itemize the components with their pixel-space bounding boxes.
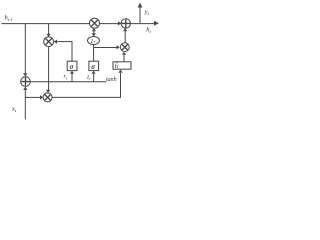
wire: riser into sigma box B2	[93, 74, 95, 82]
wire: drop from top line into multiplier M2	[48, 23, 50, 34]
sigma box B1 (reset gate)	[67, 61, 77, 70]
wire: M2 output down to M3	[48, 47, 50, 91]
arrowhead into h[t] output	[154, 21, 159, 26]
wire: y[t] branch up	[139, 7, 141, 23]
wire: x[t] riser	[24, 90, 26, 120]
wire: top h-line from h[t-1] to h[t]	[2, 23, 156, 25]
arrowhead into M4 left	[117, 45, 120, 49]
arrowhead into B2 bottom	[92, 71, 96, 74]
wire: ellipse top to multiplier M1 bottom	[93, 28, 95, 36]
wire: z branch right to multiplier M4	[94, 47, 117, 49]
wire: M4 output up into plus node S2	[124, 31, 126, 43]
svg-text:σ: σ	[70, 63, 74, 71]
arrowhead into B1 bottom	[70, 71, 74, 74]
wire: gate bus from S1 output rightwards	[30, 81, 106, 83]
svg-text:σ: σ	[91, 63, 95, 71]
multiplier node M2 (reset gate times h)	[44, 37, 54, 47]
wire: left drop from top line to plus node S1	[24, 23, 26, 73]
svg-text:1-: 1-	[90, 38, 95, 45]
multiplier node M4 (z times candidate)	[120, 43, 129, 52]
wire: M3 output right then up into candidate box B3	[52, 73, 120, 97]
sigma box B2 (update gate)	[89, 61, 99, 70]
svg-text:rt: rt	[64, 74, 68, 81]
wire: candidate box B3 top up into M4	[123, 55, 125, 62]
wire: x[t] branch right to multiplier M3	[25, 96, 40, 98]
plus node S2 (adds on h-line)	[121, 19, 130, 28]
svg-text:ht-1: ht-1	[5, 15, 13, 23]
plus node S1 (h[t-1] plus x[t])	[21, 77, 31, 87]
one-minus ellipse	[88, 37, 100, 45]
wire: riser into sigma box B1	[71, 74, 73, 82]
wire: r gate feedback from sigma box B1 up and left into M2	[57, 42, 72, 61]
arrowhead into S2 bottom	[123, 28, 127, 31]
arrowhead into B3 bottom (tanh)	[118, 70, 122, 73]
svg-text:ht: ht	[146, 27, 151, 35]
arrowhead y[t]	[138, 3, 143, 8]
arrowhead into M3 left	[40, 95, 43, 99]
arrowhead into M4 bottom	[122, 52, 126, 55]
arrowhead into S1 top	[23, 73, 27, 76]
svg-text:h̃: h̃	[115, 63, 119, 70]
candidate box B3 (h tilde)	[113, 62, 131, 69]
svg-text:tanh: tanh	[106, 77, 117, 83]
arrowhead down into ellipse top	[92, 33, 96, 36]
arrowhead into S1 bottom	[23, 87, 27, 90]
arrowhead into M3 top	[46, 90, 50, 93]
multiplier node M3 (bottom)	[43, 93, 52, 102]
multiplier node M1 (on h-line, times 1-z)	[90, 18, 100, 28]
arrowhead into S2 left on h-line	[118, 21, 121, 25]
arrowhead into M2 right	[54, 40, 57, 44]
arrowhead into M2 top	[47, 34, 51, 37]
svg-text:yt: yt	[144, 8, 150, 16]
svg-text:zt: zt	[86, 75, 91, 82]
svg-text:xt: xt	[11, 106, 17, 114]
wire: z riser from sigma box B2 up to 1- ellipse	[93, 44, 95, 61]
arrowhead up into M1 bottom	[92, 28, 96, 31]
